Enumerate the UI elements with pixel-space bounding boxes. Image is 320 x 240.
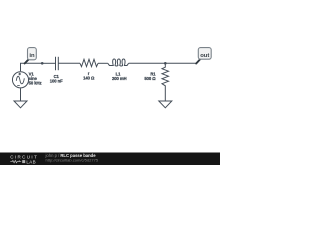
resistor r 140 ohm (80, 59, 98, 66)
svg-text:LAB: LAB (26, 159, 36, 164)
svg-text:500 Ω: 500 Ω (144, 76, 156, 81)
in flag box (28, 48, 37, 60)
svg-text:100 nF: 100 nF (50, 79, 63, 84)
svg-text:50 kHz: 50 kHz (29, 81, 42, 86)
V1 minus sign (17, 85, 20, 87)
wire V1 bottom to ground (20, 88, 22, 101)
wire V1 top to junction node (21, 63, 43, 71)
junction node after in flag (41, 62, 44, 65)
out flag pointer (196, 60, 200, 64)
svg-text:http://circuitlab.com/c/5d2775: http://circuitlab.com/c/5d2775 (46, 158, 99, 163)
svg-text:in: in (29, 53, 35, 59)
wire R1 junction to out flag anchor (165, 62, 196, 64)
wire C1 right plate to resistor r (58, 62, 80, 64)
footer bar (0, 153, 220, 166)
V1 plus sign (18, 73, 21, 76)
out flag box (198, 48, 211, 60)
voltage source V1 circle (12, 72, 28, 88)
wire resistor r to inductor L1 (98, 62, 108, 64)
capacitor C1 left plate (55, 57, 57, 70)
resistor R1 500 ohm vertical (162, 63, 169, 101)
svg-text:out: out (200, 53, 209, 59)
V1 sine squiggle (16, 76, 24, 84)
wire L1 to R1 junction node (129, 62, 166, 64)
wire junction to C1 left plate (42, 62, 55, 64)
junction node at R1 (164, 62, 167, 65)
ground left (14, 101, 27, 108)
capacitor C1 right plate (57, 57, 59, 70)
svg-text:140 Ω: 140 Ω (83, 76, 95, 81)
inductor L1 200 mH (108, 59, 129, 66)
ground right (159, 101, 172, 108)
svg-text:200 mH: 200 mH (112, 76, 127, 81)
CircuitLab logo squiggle (10, 160, 21, 163)
CircuitLab logo LAB block (22, 160, 25, 163)
in flag pointer (25, 60, 29, 64)
